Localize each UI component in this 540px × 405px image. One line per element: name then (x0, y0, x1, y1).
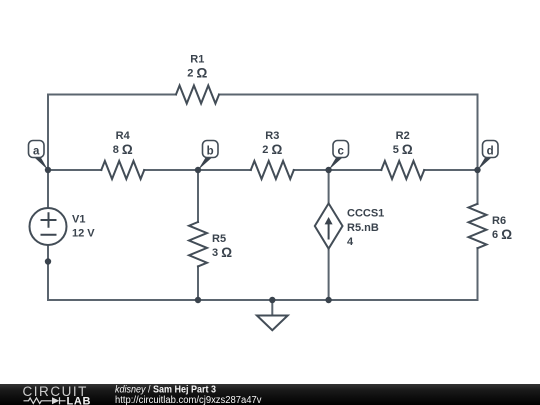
svg-text:R2: R2 (396, 130, 410, 142)
svg-text:8 Ω: 8 Ω (113, 142, 133, 157)
svg-text:4: 4 (347, 236, 354, 248)
svg-text:b: b (207, 146, 214, 158)
svg-text:CCCS1: CCCS1 (347, 208, 384, 220)
svg-text:R4: R4 (116, 130, 131, 142)
svg-text:a: a (33, 146, 40, 158)
svg-text:R5.nB: R5.nB (347, 222, 379, 234)
svg-text:5 Ω: 5 Ω (393, 142, 413, 157)
svg-text:kdisney / Sam Hej Part 3: kdisney / Sam Hej Part 3 (115, 385, 216, 396)
svg-text:http://circuitlab.com/cj9xzs28: http://circuitlab.com/cj9xzs287a47v (115, 395, 262, 405)
svg-text:V1: V1 (72, 214, 85, 226)
svg-text:6 Ω: 6 Ω (492, 227, 512, 242)
svg-text:c: c (337, 146, 344, 158)
svg-text:2 Ω: 2 Ω (262, 142, 282, 157)
svg-text:R6: R6 (492, 215, 506, 227)
svg-text:R5: R5 (212, 233, 226, 245)
svg-text:d: d (487, 146, 494, 158)
svg-text:R1: R1 (190, 54, 204, 66)
svg-text:LAB: LAB (67, 396, 92, 405)
svg-text:2 Ω: 2 Ω (187, 65, 207, 80)
svg-text:3 Ω: 3 Ω (212, 245, 232, 260)
svg-text:12 V: 12 V (72, 228, 95, 240)
svg-text:R3: R3 (265, 130, 279, 142)
